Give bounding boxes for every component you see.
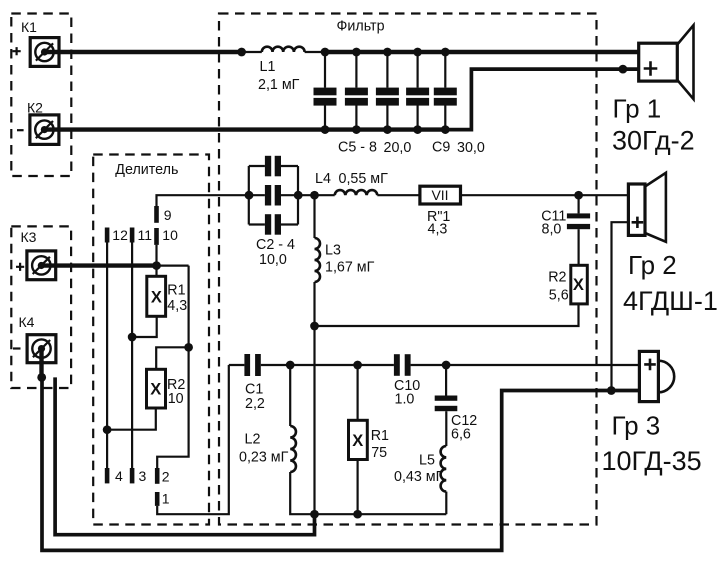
pin 12 [105,228,110,243]
wire C11 top lead [577,195,579,213]
resistor R2 (5,6) [571,265,588,304]
resistor R2 divider [147,369,166,408]
svg-text:5,6: 5,6 [549,288,569,304]
svg-text:3: 3 [139,468,147,484]
inductor L3 [315,238,321,282]
svg-text:10,0: 10,0 [259,252,287,268]
wire C10 to Гр3 [411,364,640,366]
svg-text:X: X [150,381,161,399]
wire L3 top lead [313,195,315,238]
svg-text:30,0: 30,0 [457,140,485,156]
junction dot R2 top [184,343,193,352]
wire K1 to filter (thick) [44,50,242,54]
junction dot [128,333,137,342]
wire C2-4 to L4 [298,194,335,196]
capacitor C8 [406,48,429,134]
svg-text:1,67 мГ: 1,67 мГ [325,260,375,276]
svg-text:R1: R1 [371,428,389,444]
capacitor block C2-4 [245,156,303,235]
svg-text:X: X [573,276,584,294]
pin 9 [154,206,159,223]
svg-text:К1: К1 [21,19,37,35]
pin 11 [130,228,135,243]
svg-text:6,6: 6,6 [451,427,471,443]
speaker Гр1 [639,25,694,99]
wire R2 bottom to line 12-4 [107,408,156,430]
wire L3 junction down to bottom rail [313,326,315,514]
svg-text:0,23 мГ: 0,23 мГ [239,450,289,466]
junction dot L2 top [286,361,295,370]
svg-text:4ГДШ-1: 4ГДШ-1 [623,286,718,316]
terminal block box K1/K2 [11,14,71,177]
inductor L5 [441,446,447,514]
junction dot [103,425,112,434]
junction dot R1 top [353,361,362,370]
svg-text:4: 4 [115,468,123,484]
wire line 11-3 [131,243,133,469]
svg-text:1: 1 [162,491,170,507]
svg-text:L5: L5 [419,453,435,469]
inductor L4 [335,190,378,195]
svg-text:20,0: 20,0 [384,140,412,156]
pin 10 [154,228,159,245]
svg-text:2: 2 [162,469,170,485]
pin 1 [155,492,160,506]
svg-text:L3: L3 [325,243,341,259]
junction dot C12 top [442,361,451,370]
wire K3 to divider (thick) [41,263,156,267]
terminal block box K3/K4 [11,226,71,388]
wire L1 to cap rail [305,51,325,53]
inductor L1 [262,47,305,52]
wire top rail to Гр1 (thick) [325,50,639,54]
svg-text:Фильтр: Фильтр [337,19,385,35]
svg-text:X: X [151,288,162,306]
speaker Гр2 [628,173,666,242]
svg-text:К3: К3 [21,229,37,245]
polarity − of K4 [13,347,21,349]
svg-text:11: 11 [138,227,153,243]
pin 3 [130,468,135,483]
svg-text:4,3: 4,3 [167,298,187,314]
capacitor C11 [567,213,590,265]
capacitor C12 [435,365,458,446]
svg-text:10: 10 [168,391,184,407]
wire K4 stem [39,348,43,377]
inductor L2 [290,365,314,514]
svg-text:К4: К4 [19,314,35,330]
capacitor C1 [229,354,290,376]
svg-text:R1: R1 [167,282,185,298]
junction dot K4 [37,373,46,382]
resistor R"1 (VII box) [420,186,461,204]
svg-text:Гр 1: Гр 1 [613,94,662,124]
pin 2 [155,468,160,484]
svg-text:L1: L1 [260,59,276,75]
svg-text:9: 9 [164,207,172,223]
wire to L1 [242,51,262,53]
wire midrange return rail [315,304,579,326]
svg-text:0,55 мГ: 0,55 мГ [339,171,389,187]
svg-text:VII: VII [431,187,448,203]
resistor R1 (75) [349,365,368,514]
capacitor C9 [434,48,457,134]
wire bottom rail up to Гр1 [445,69,638,130]
svg-text:12: 12 [112,227,128,243]
wire C2-4 to pin 9 [157,195,250,206]
svg-text:8,0: 8,0 [542,221,562,237]
wire bottom rail [315,513,447,515]
terminal K2 [30,115,59,144]
svg-text:X: X [352,432,363,450]
speaker Гр3 [639,351,674,401]
divider box (Делитель) [93,155,209,525]
junction dot bottom rail [310,510,319,519]
wire line 12-4 [106,243,108,469]
capacitor C10 [394,354,411,376]
svg-text:10: 10 [162,227,178,243]
wire Гр2 return [612,222,629,390]
wire bottom rail to K4 branch [55,377,314,534]
svg-text:2,1 мГ: 2,1 мГ [258,77,300,93]
svg-text:30Гд-2: 30Гд-2 [612,126,695,156]
junction dot L3 bottom [310,322,319,331]
resistor R1 divider [147,276,166,316]
pin 4 [105,468,110,483]
wire tweeter rail C1 to C10 [290,364,394,366]
wire L4 to VII [377,194,420,196]
junction dot Гр2/Гр3 return [607,386,616,395]
wire node 10 to R2 feed line [157,265,189,267]
svg-text:R2: R2 [548,270,566,286]
junction dot L3 top [310,191,319,200]
svg-text:К2: К2 [27,100,43,116]
svg-text:С2 - 4: С2 - 4 [256,237,295,253]
wire pin 1 to C1 branch [157,365,229,514]
wire K2 bottom rail (thick) [44,127,445,131]
capacitor C6 [345,48,368,134]
capacitor C7 [376,48,399,134]
wire to R2 top [156,347,188,368]
svg-text:1.0: 1.0 [395,392,415,408]
junction dot C11 top [574,191,583,200]
svg-text:75: 75 [371,445,387,461]
svg-text:4,3: 4,3 [428,222,448,238]
polarity + of K3 [16,263,24,271]
svg-text:Гр 2: Гр 2 [628,250,677,280]
wire R1 bottom to line 11-3 [132,316,157,337]
svg-text:L2: L2 [245,432,261,448]
svg-text:0,43 мГ: 0,43 мГ [394,469,444,485]
junction dot [237,48,246,57]
wire pin 10 to R1 [155,245,157,278]
wire VII to Гр2 [460,194,628,196]
filter box (Фильтр) [219,14,597,525]
svg-text:2,2: 2,2 [245,396,265,412]
polarity − of K2 [17,129,24,131]
wire L3 bottom lead [313,282,315,326]
svg-text:С9: С9 [432,140,450,156]
junction dot at Гр1 [619,65,628,74]
terminal K3 [27,251,56,280]
wire R2 feed vertical [157,266,188,468]
terminal K1 [30,38,59,67]
junction dot node 10 [152,261,161,270]
svg-text:С5 - 8: С5 - 8 [338,140,377,156]
svg-text:Гр 3: Гр 3 [612,411,661,441]
terminal K4 [27,335,56,363]
polarity + of K1 [13,47,21,55]
svg-text:L4: L4 [315,171,331,187]
svg-text:Делитель: Делитель [115,162,178,178]
junction dot R1 bottom [353,510,362,519]
wire Гр3 return to K4 [42,377,639,550]
capacitor C5 [314,48,337,134]
svg-text:10ГД-35: 10ГД-35 [602,446,702,476]
